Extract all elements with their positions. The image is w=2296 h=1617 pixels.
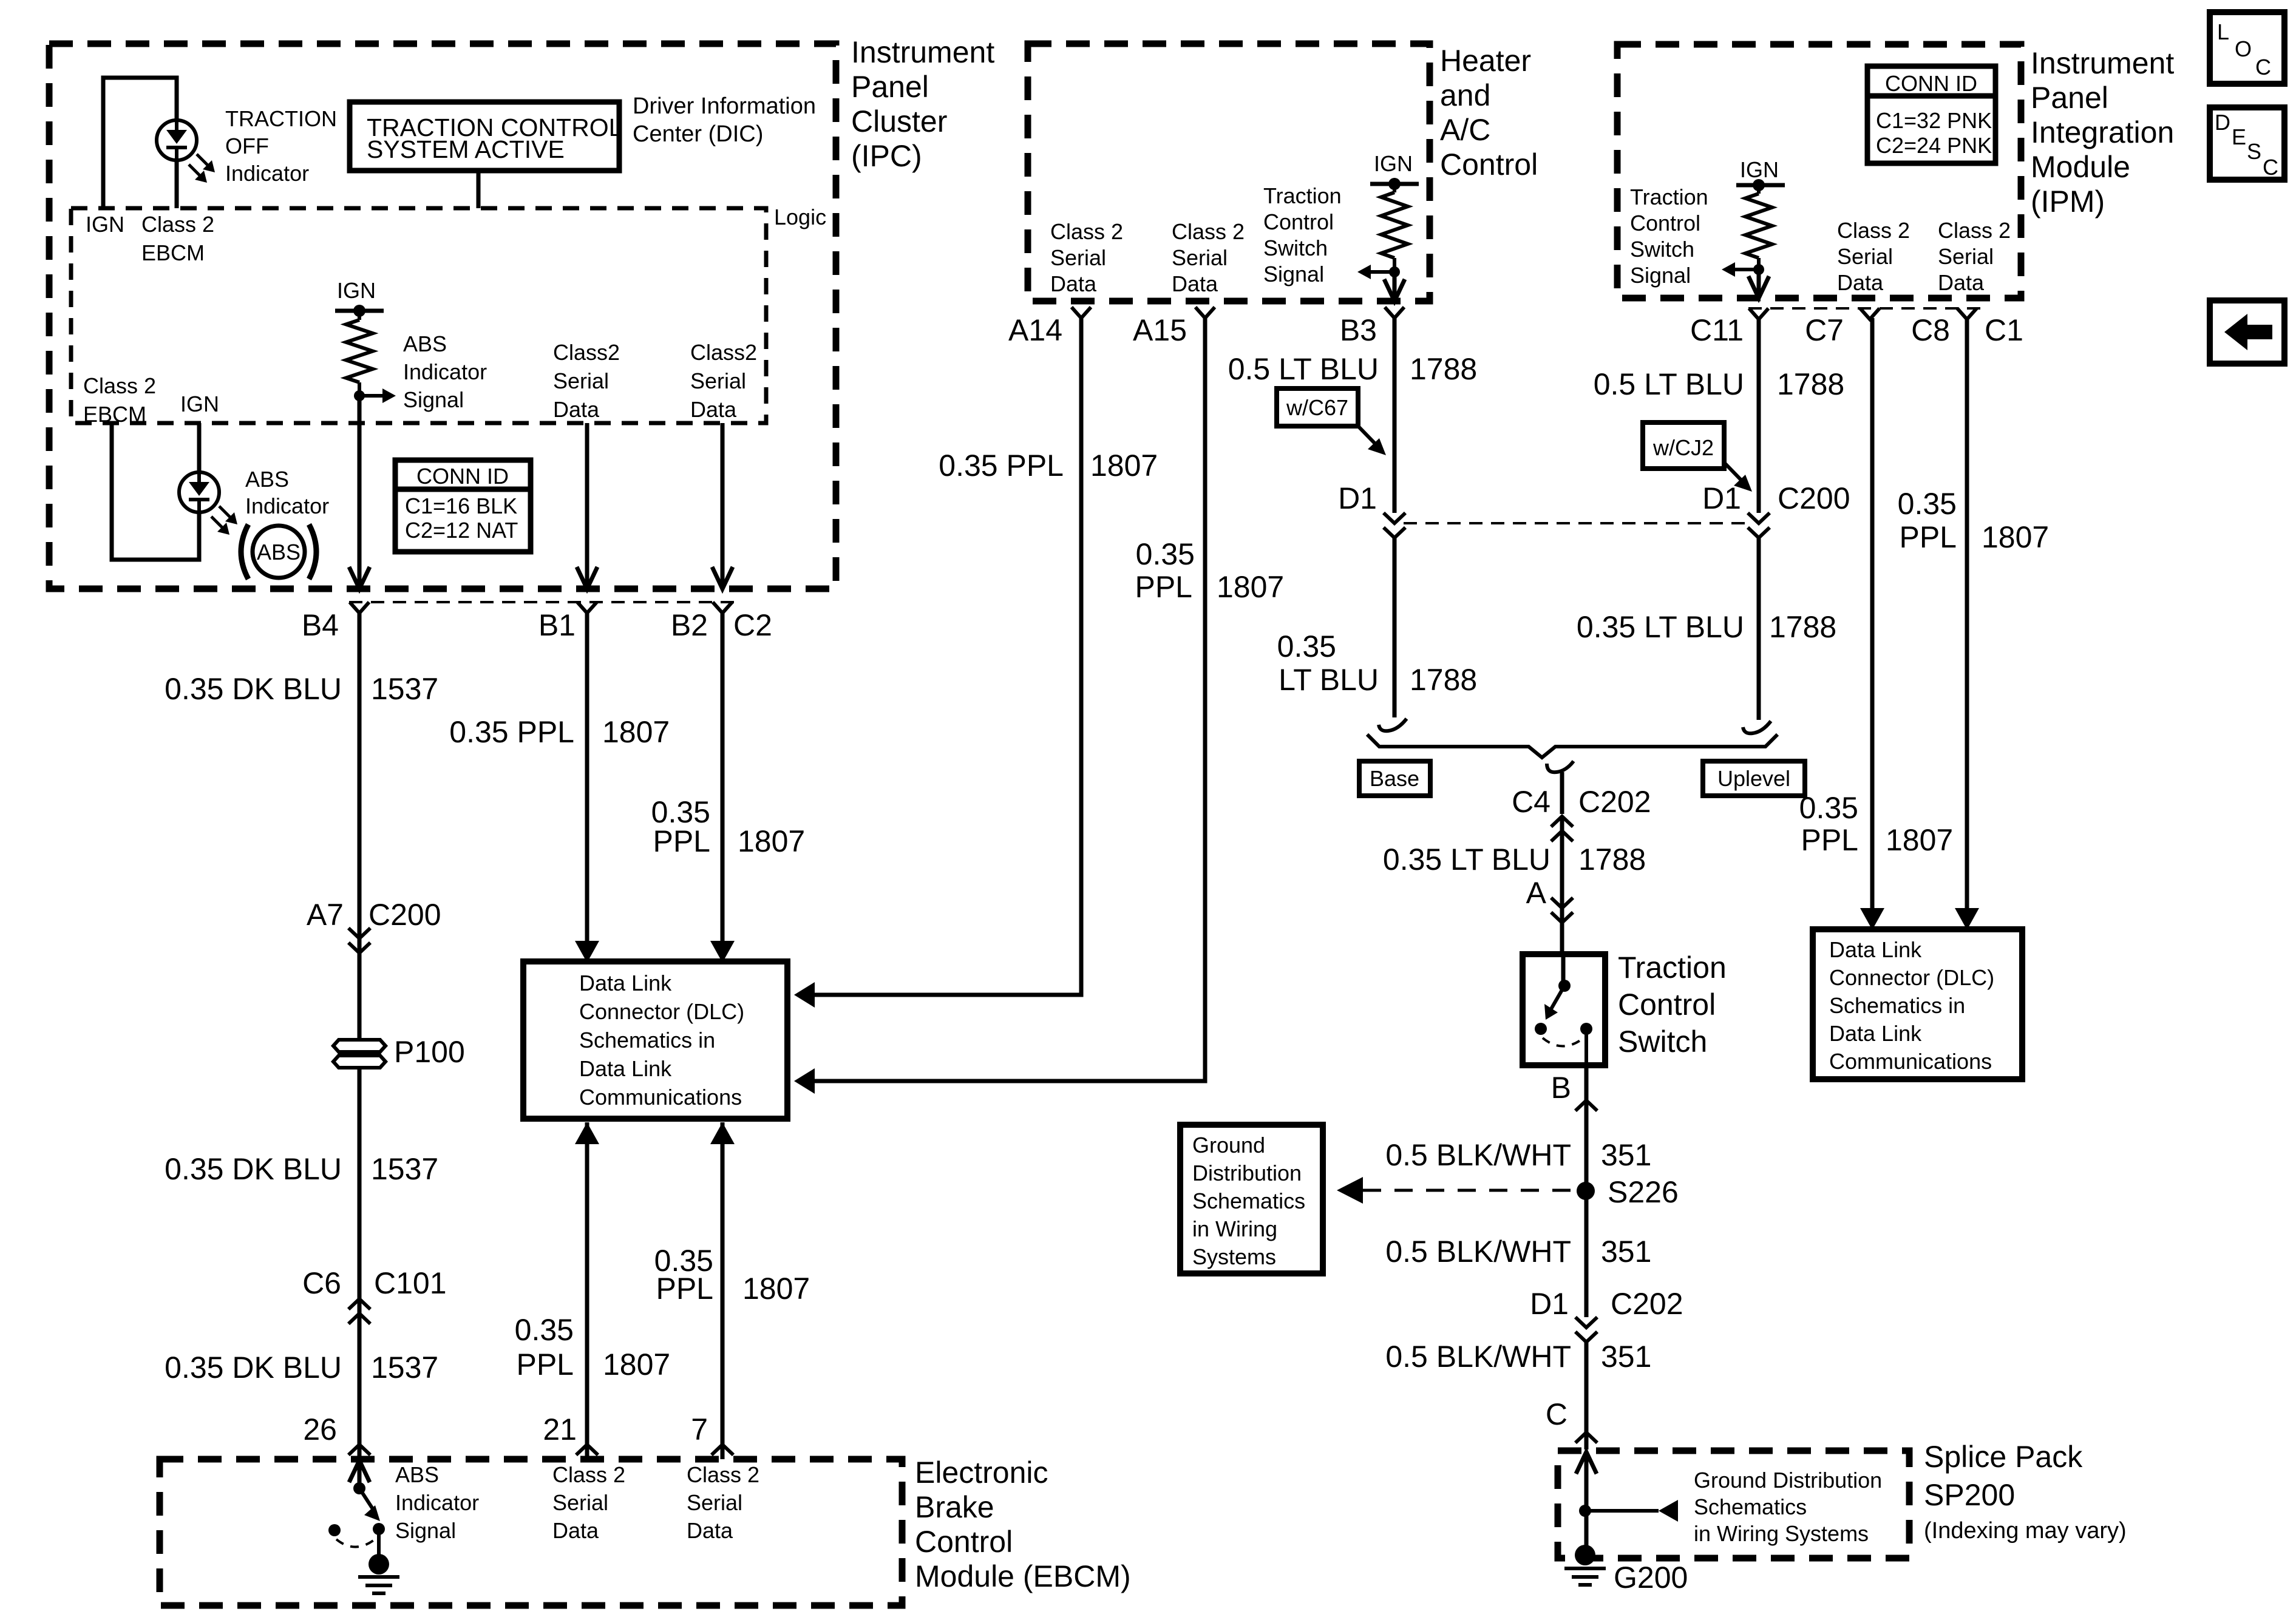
svg-text:21: 21	[543, 1412, 577, 1446]
icon box: DESC	[2210, 107, 2284, 180]
svg-text:C11: C11	[1690, 313, 1744, 347]
svg-text:C200: C200	[369, 898, 441, 932]
arrow: ABS indicator signal into EBCM	[349, 1460, 370, 1482]
svg-text:C202: C202	[1611, 1287, 1683, 1321]
svg-text:C: C	[1546, 1397, 1567, 1431]
symbol: (ABS) warning lamp icon	[253, 526, 305, 578]
svg-text:Heater: Heater	[1440, 44, 1531, 78]
wire: pin 21 to DLC bottom	[585, 1122, 589, 1459]
module box: Instrument Panel Cluster (IPC) dashed outline	[49, 44, 836, 589]
svg-text:0.35 PPL: 0.35 PPL	[939, 449, 1064, 483]
pin C11 chevron	[1749, 308, 1768, 319]
svg-text:Control: Control	[915, 1525, 1013, 1559]
svg-text:G200: G200	[1614, 1561, 1688, 1595]
svg-text:SYSTEM ACTIVE: SYSTEM ACTIVE	[367, 135, 565, 163]
svg-text:PPL: PPL	[1899, 520, 1957, 554]
component box: Ground Distribution reference	[1180, 1125, 1323, 1273]
svg-text:Serial: Serial	[1172, 245, 1228, 270]
svg-text:Data Link: Data Link	[1829, 937, 1922, 962]
svg-text:1807: 1807	[602, 715, 670, 749]
svg-text:Data: Data	[687, 1518, 733, 1543]
svg-text:A: A	[1526, 876, 1547, 910]
svg-text:P100: P100	[394, 1035, 465, 1069]
svg-text:0.35 LT BLU: 0.35 LT BLU	[1577, 610, 1744, 644]
grommet P100	[333, 1040, 385, 1068]
svg-text:Class 2: Class 2	[141, 212, 214, 237]
svg-text:Serial: Serial	[552, 1490, 608, 1515]
svg-text:LT BLU: LT BLU	[1279, 663, 1379, 697]
icon box: LOC	[2210, 12, 2284, 84]
svg-text:ABS: ABS	[245, 467, 289, 492]
node: junction to ABS Indicator Signal	[354, 390, 365, 401]
svg-text:Brake: Brake	[915, 1490, 994, 1524]
svg-text:1788: 1788	[1777, 367, 1844, 401]
option box: w/CJ2	[1643, 422, 1724, 469]
display box: TRACTION CONTROL SYSTEM ACTIVE (DIC)	[350, 102, 619, 171]
svg-text:CONN ID: CONN ID	[1885, 71, 1977, 96]
connector line: C67 dashed link	[1404, 522, 1748, 524]
pin C8/C1 chevron	[1957, 308, 1977, 319]
svg-text:Data: Data	[1050, 271, 1097, 296]
svg-text:Data: Data	[552, 1518, 599, 1543]
wire: B3 below D1	[1393, 538, 1397, 717]
svg-text:Signal: Signal	[403, 387, 464, 412]
svg-text:C1=16 BLK: C1=16 BLK	[405, 493, 517, 518]
arrow: traction control switch signal tap	[1368, 270, 1394, 274]
wire: 0.5 BLK/WHT 351 to splice pack	[1584, 1342, 1589, 1449]
wire: TRACTION OFF indicator loop	[103, 78, 177, 208]
svg-text:B1: B1	[538, 608, 576, 642]
svg-text:OFF: OFF	[225, 134, 269, 158]
svg-text:(IPM): (IPM)	[2031, 185, 2105, 219]
svg-text:C1=32 PNK: C1=32 PNK	[1876, 108, 1992, 133]
pin 21 chevron at EBCM	[576, 1445, 598, 1455]
node: IGN rail heater	[1370, 182, 1419, 186]
svg-text:Systems: Systems	[1192, 1244, 1276, 1269]
svg-text:0.5 BLK/WHT: 0.5 BLK/WHT	[1385, 1138, 1571, 1172]
pin C chevron	[1575, 1432, 1597, 1443]
switch: ABS indicator driver in EBCM	[353, 1482, 365, 1494]
wire: C7 purple to DLC	[1870, 318, 1875, 925]
svg-text:Schematics in: Schematics in	[579, 1028, 715, 1053]
svg-text:S226: S226	[1608, 1175, 1679, 1209]
wire: splice pack bus	[1584, 1452, 1589, 1555]
svg-text:Traction: Traction	[1630, 185, 1708, 209]
LED: TRACTION OFF indicator lamp	[157, 120, 197, 160]
wire: C11 inside IPM	[1757, 269, 1761, 296]
pin C7 chevron	[1860, 308, 1880, 319]
wire: DIC to logic box	[477, 171, 481, 208]
svg-text:C8: C8	[1911, 313, 1950, 347]
svg-text:Indicator: Indicator	[245, 493, 329, 518]
svg-text:1788: 1788	[1410, 352, 1477, 386]
resistor: traction switch pull-up (heater)	[1393, 184, 1396, 192]
svg-text:0.35: 0.35	[1898, 487, 1957, 521]
svg-text:351: 351	[1601, 1138, 1651, 1172]
wire: merged C202 feed	[1560, 772, 1564, 814]
svg-text:PPL: PPL	[656, 1272, 713, 1306]
svg-text:Signal: Signal	[1630, 263, 1691, 288]
wire: 0.5 BLK/WHT 351 to S226	[1584, 1100, 1589, 1317]
svg-text:IGN: IGN	[86, 212, 124, 237]
svg-text:1788: 1788	[1578, 842, 1646, 876]
svg-text:IGN: IGN	[1740, 157, 1779, 182]
svg-text:Switch: Switch	[1263, 236, 1328, 260]
svg-text:Schematics in: Schematics in	[1829, 993, 1965, 1018]
svg-text:0.35 PPL: 0.35 PPL	[449, 715, 574, 749]
svg-text:Driver Information: Driver Information	[633, 93, 816, 119]
svg-text:S: S	[2247, 139, 2261, 164]
svg-text:Serial: Serial	[687, 1490, 742, 1515]
svg-text:1537: 1537	[371, 672, 438, 706]
svg-text:C101: C101	[374, 1266, 447, 1300]
pin A14 chevron	[1072, 307, 1091, 318]
svg-text:0.35 DK BLU: 0.35 DK BLU	[165, 1152, 342, 1186]
svg-text:B4: B4	[302, 608, 339, 642]
svg-text:A15: A15	[1133, 313, 1187, 347]
svg-text:Splice Pack: Splice Pack	[1924, 1440, 2083, 1474]
svg-text:Serial: Serial	[1938, 244, 1994, 269]
arrow: B4 exits IPC	[349, 567, 370, 589]
svg-text:0.35: 0.35	[1277, 629, 1336, 663]
svg-text:Signal: Signal	[395, 1518, 456, 1543]
svg-text:1807: 1807	[1217, 570, 1284, 604]
svg-text:Indicator: Indicator	[395, 1490, 479, 1515]
connector line: IPM harness connector	[1748, 307, 1980, 310]
svg-text:C1: C1	[1985, 313, 2023, 347]
LED: ABS indicator lamp	[179, 472, 219, 512]
module box: Instrument Panel Integration Module (IPM)	[1617, 44, 2021, 298]
svg-text:1807: 1807	[1982, 520, 2049, 554]
svg-text:Ground Distribution: Ground Distribution	[1694, 1468, 1882, 1493]
wire: C11 light blue 1788	[1757, 318, 1761, 513]
node: traction switch signal tap (IPM)	[1753, 264, 1764, 275]
wire: A15 serial data to DLC	[815, 318, 1205, 1081]
svg-text:Serial: Serial	[553, 368, 609, 393]
switch: traction control momentary contact	[1561, 954, 1566, 986]
arrow: w/C67 points to wire	[1358, 426, 1379, 448]
svg-text:0.5 LT BLU: 0.5 LT BLU	[1228, 352, 1379, 386]
wire: ABS indicator loop	[112, 423, 199, 560]
svg-text:Module: Module	[2031, 150, 2130, 184]
svg-text:B3: B3	[1340, 313, 1377, 347]
svg-text:CONN ID: CONN ID	[416, 464, 509, 489]
node: traction switch signal tap (heater)	[1389, 266, 1400, 277]
svg-text:1537: 1537	[371, 1351, 438, 1385]
pin B3 chevron	[1385, 307, 1404, 318]
arrow: B2 exits IPC	[712, 567, 733, 589]
svg-text:Signal: Signal	[1263, 262, 1324, 286]
pin A15 chevron	[1195, 307, 1215, 318]
node: splice junction	[1579, 1505, 1591, 1517]
svg-text:and: and	[1440, 78, 1490, 112]
svg-text:Communications: Communications	[1829, 1049, 1992, 1074]
arrow: ground distribution dashed link	[1337, 1177, 1363, 1204]
svg-text:Communications: Communications	[579, 1085, 742, 1110]
svg-text:1807: 1807	[742, 1272, 810, 1306]
svg-text:w/CJ2: w/CJ2	[1652, 435, 1714, 460]
component box: Traction Control Switch	[1523, 954, 1605, 1065]
arrow: traction control switch signal tap (IPM)	[1733, 268, 1759, 271]
module box: Splice Pack SP200	[1558, 1451, 1909, 1558]
wire: ABS indicator signal B4 inside IPC	[358, 396, 362, 587]
pin 7 chevron at EBCM	[712, 1445, 733, 1455]
svg-text:TRACTION: TRACTION	[225, 106, 337, 131]
arrow: ground feed into splice pack	[1576, 1452, 1597, 1474]
pin A chevrons	[1551, 898, 1573, 908]
wire: A14 serial data to DLC	[815, 318, 1081, 995]
svg-text:Traction: Traction	[1618, 951, 1727, 985]
pin B4 of IPC connector	[350, 602, 369, 613]
component box: Data Link Connector (DLC) reference (right)	[1813, 929, 2022, 1079]
connector C101 pass-through (C6)	[348, 1299, 370, 1309]
wire: B3 light blue 1788	[1393, 318, 1397, 513]
svg-text:Class2: Class2	[553, 340, 620, 365]
svg-text:C7: C7	[1805, 313, 1844, 347]
svg-text:C2: C2	[733, 608, 772, 642]
svg-text:C6: C6	[302, 1266, 341, 1300]
connector: CONN ID table of IPM	[1867, 66, 1995, 163]
svg-text:Data Link: Data Link	[1829, 1021, 1922, 1046]
svg-text:IGN: IGN	[180, 392, 219, 416]
svg-text:0.35: 0.35	[1799, 791, 1858, 825]
connector D1/C200 chevrons (C11)	[1748, 513, 1770, 523]
svg-text:C2=12 NAT: C2=12 NAT	[405, 518, 518, 543]
svg-text:Serial: Serial	[690, 368, 746, 393]
svg-text:1788: 1788	[1769, 610, 1836, 644]
svg-text:A14: A14	[1008, 313, 1062, 347]
svg-text:D: D	[2215, 110, 2230, 135]
resistor: traction switch pull-up (IPM)	[1757, 185, 1761, 194]
svg-text:0.35 DK BLU: 0.35 DK BLU	[165, 1351, 342, 1385]
svg-text:Instrument: Instrument	[2031, 46, 2174, 80]
svg-text:Data Link: Data Link	[579, 1056, 672, 1081]
svg-text:in Wiring: in Wiring	[1192, 1216, 1277, 1241]
arrow: B1 exits IPC	[577, 567, 597, 589]
svg-text:Ground: Ground	[1192, 1133, 1265, 1158]
svg-text:351: 351	[1601, 1340, 1651, 1374]
svg-text:Data Link: Data Link	[579, 971, 672, 995]
svg-text:B2: B2	[671, 608, 708, 642]
wire: C8 purple to DLC	[1965, 318, 1969, 925]
connector C202 chevrons (D1)	[1575, 1317, 1597, 1327]
svg-text:Data: Data	[1837, 270, 1884, 295]
svg-text:Indicator: Indicator	[225, 161, 309, 186]
svg-text:A7: A7	[307, 898, 344, 932]
svg-text:Indicator: Indicator	[403, 359, 487, 384]
svg-text:PPL: PPL	[516, 1347, 574, 1381]
svg-text:Panel: Panel	[851, 70, 929, 104]
svg-text:Control: Control	[1618, 988, 1716, 1022]
svg-text:1807: 1807	[603, 1347, 670, 1381]
svg-text:Control: Control	[1630, 211, 1700, 236]
svg-text:w/C67: w/C67	[1286, 395, 1348, 420]
svg-text:Logic: Logic	[774, 205, 826, 229]
svg-text:1788: 1788	[1410, 663, 1477, 697]
svg-text:Traction: Traction	[1263, 183, 1342, 208]
svg-text:C200: C200	[1778, 481, 1850, 515]
svg-text:0.35 DK BLU: 0.35 DK BLU	[165, 672, 342, 706]
svg-text:Class 2: Class 2	[1837, 218, 1910, 243]
wire: class 2 serial data B1 stub	[585, 423, 589, 587]
svg-text:D1: D1	[1530, 1287, 1569, 1321]
ground: EBCM internal ground	[369, 1554, 389, 1575]
wire: switch output B	[1584, 1029, 1588, 1065]
option box: w/C67	[1277, 388, 1358, 426]
svg-text:IGN: IGN	[337, 278, 376, 303]
svg-text:1807: 1807	[1886, 823, 1953, 857]
svg-text:in Wiring Systems: in Wiring Systems	[1694, 1521, 1869, 1546]
wire: B2 purple 1807 to DLC	[721, 613, 725, 958]
svg-text:PPL: PPL	[1801, 823, 1858, 857]
arrow: ABS Indicator Signal tap	[359, 394, 385, 398]
svg-text:D1: D1	[1702, 481, 1741, 515]
svg-text:O: O	[2235, 36, 2252, 61]
svg-text:PPL: PPL	[1135, 570, 1192, 604]
pin 26 connector chevron	[348, 1445, 370, 1455]
svg-text:1807: 1807	[738, 824, 805, 858]
connector C200 pass-through (A7)	[348, 928, 370, 938]
svg-text:1537: 1537	[371, 1152, 438, 1186]
svg-text:SP200: SP200	[1924, 1478, 2015, 1512]
logic box (inner dashed) of IPC	[71, 208, 766, 423]
svg-text:7: 7	[691, 1412, 708, 1446]
arrow: C11 exits IPM	[1748, 276, 1769, 298]
svg-text:Class 2: Class 2	[83, 373, 156, 398]
svg-text:Class2: Class2	[690, 340, 757, 365]
svg-text:26: 26	[303, 1412, 337, 1446]
svg-text:Schematics: Schematics	[1192, 1188, 1305, 1213]
svg-text:Cluster: Cluster	[851, 104, 947, 138]
svg-text:EBCM: EBCM	[83, 402, 146, 427]
svg-text:L: L	[2217, 19, 2229, 44]
svg-text:0.5 LT BLU: 0.5 LT BLU	[1594, 367, 1744, 401]
svg-text:Switch: Switch	[1630, 237, 1694, 262]
module box: Heater and A/C Control	[1028, 44, 1430, 301]
svg-text:1807: 1807	[1090, 449, 1158, 483]
svg-text:C4: C4	[1512, 785, 1550, 819]
svg-text:A/C: A/C	[1440, 113, 1490, 147]
svg-text:C2=24 PNK: C2=24 PNK	[1876, 133, 1992, 158]
wire: B1 purple 1807 to DLC	[585, 613, 589, 958]
svg-text:Panel: Panel	[2031, 81, 2108, 115]
svg-text:C: C	[2255, 55, 2271, 80]
pin B2/C2 of IPC connector	[713, 602, 732, 613]
svg-text:Class 2: Class 2	[687, 1462, 759, 1487]
wire: pin 7 to DLC bottom	[721, 1122, 725, 1459]
svg-text:IGN: IGN	[1374, 151, 1413, 176]
module box: Electronic Brake Control Module (EBCM)	[160, 1459, 902, 1605]
svg-text:Center (DIC): Center (DIC)	[633, 121, 763, 147]
icon box: back arrow	[2210, 300, 2284, 364]
svg-text:C: C	[2263, 155, 2278, 180]
svg-text:Instrument: Instrument	[851, 35, 994, 69]
svg-text:351: 351	[1601, 1235, 1651, 1269]
svg-text:Switch: Switch	[1618, 1025, 1707, 1059]
arrow: w/CJ2 points to wire	[1724, 463, 1745, 484]
pin B1 of IPC connector	[577, 602, 597, 613]
svg-text:0.35: 0.35	[1136, 537, 1195, 571]
svg-text:Base: Base	[1370, 766, 1419, 791]
svg-text:Connector (DLC): Connector (DLC)	[1829, 965, 1994, 990]
hook: base branch end	[1379, 719, 1407, 731]
wire: link to ground distribution reference	[1586, 1509, 1659, 1513]
svg-text:Data: Data	[1938, 270, 1985, 295]
component box: Data Link Connector (DLC) reference (left)	[523, 961, 787, 1119]
connector: CONN ID table of IPC	[395, 460, 531, 552]
svg-text:Schematics: Schematics	[1694, 1494, 1807, 1519]
svg-text:Data: Data	[553, 397, 600, 422]
brace: base/uplevel option merge	[1367, 734, 1778, 758]
hook: uplevel branch end	[1743, 721, 1771, 733]
wire: B3 inside heater	[1393, 272, 1397, 299]
arrow: B3 exits heater	[1384, 279, 1405, 301]
svg-text:0.35: 0.35	[515, 1313, 574, 1347]
node: IGN rail IPM	[1736, 183, 1785, 188]
svg-text:E: E	[2232, 124, 2246, 149]
node: IGN rail of IPC	[335, 309, 384, 313]
svg-text:B: B	[1551, 1071, 1571, 1105]
svg-text:ABS: ABS	[257, 540, 301, 564]
svg-text:Serial: Serial	[1050, 245, 1106, 270]
svg-text:Distribution: Distribution	[1192, 1161, 1302, 1185]
svg-text:PPL: PPL	[653, 824, 710, 858]
svg-text:Serial: Serial	[1837, 244, 1893, 269]
pin B chevron	[1575, 1100, 1597, 1111]
svg-text:Class 2: Class 2	[1938, 218, 2011, 243]
connector D1 chevrons (B3)	[1384, 513, 1405, 523]
svg-text:ABS: ABS	[395, 1462, 439, 1487]
option box: Base	[1359, 761, 1430, 796]
svg-text:Integration: Integration	[2031, 115, 2174, 149]
svg-text:Class 2: Class 2	[552, 1462, 625, 1487]
wire: B4 dark blue 1537 run	[358, 613, 362, 1459]
wire: C11 below D1	[1757, 538, 1761, 720]
svg-text:C202: C202	[1578, 785, 1651, 819]
hook: center of brace	[1547, 761, 1574, 772]
svg-text:Data: Data	[690, 397, 737, 422]
svg-text:D1: D1	[1338, 481, 1377, 515]
svg-text:Electronic: Electronic	[915, 1456, 1048, 1490]
svg-text:(Indexing may vary): (Indexing may vary)	[1924, 1518, 2127, 1544]
svg-text:Uplevel: Uplevel	[1717, 766, 1790, 791]
resistor: IPC ABS indicator driver	[358, 311, 361, 320]
wire: class 2 serial data B2 stub	[721, 423, 725, 587]
svg-text:0.5 BLK/WHT: 0.5 BLK/WHT	[1385, 1340, 1571, 1374]
svg-text:Class 2: Class 2	[1172, 219, 1245, 244]
svg-text:Class 2: Class 2	[1050, 219, 1123, 244]
svg-text:Data: Data	[1172, 271, 1218, 296]
svg-text:ABS: ABS	[403, 331, 447, 356]
svg-text:Connector (DLC): Connector (DLC)	[579, 999, 744, 1024]
svg-text:Control: Control	[1440, 147, 1538, 181]
svg-text:0.35 LT BLU: 0.35 LT BLU	[1383, 842, 1550, 876]
svg-text:(IPC): (IPC)	[851, 139, 922, 173]
svg-text:EBCM: EBCM	[141, 240, 205, 265]
svg-text:Module (EBCM): Module (EBCM)	[915, 1559, 1131, 1593]
svg-text:Control: Control	[1263, 209, 1334, 234]
wire: traction switch feed	[1560, 816, 1564, 954]
option box: Uplevel	[1703, 761, 1805, 796]
connector C202 chevrons (C4)	[1551, 816, 1573, 827]
ground: G200	[1575, 1545, 1595, 1565]
splice: S226	[1577, 1182, 1595, 1200]
connector line: IPC harness connector	[349, 601, 742, 603]
svg-text:0.5 BLK/WHT: 0.5 BLK/WHT	[1385, 1235, 1571, 1269]
